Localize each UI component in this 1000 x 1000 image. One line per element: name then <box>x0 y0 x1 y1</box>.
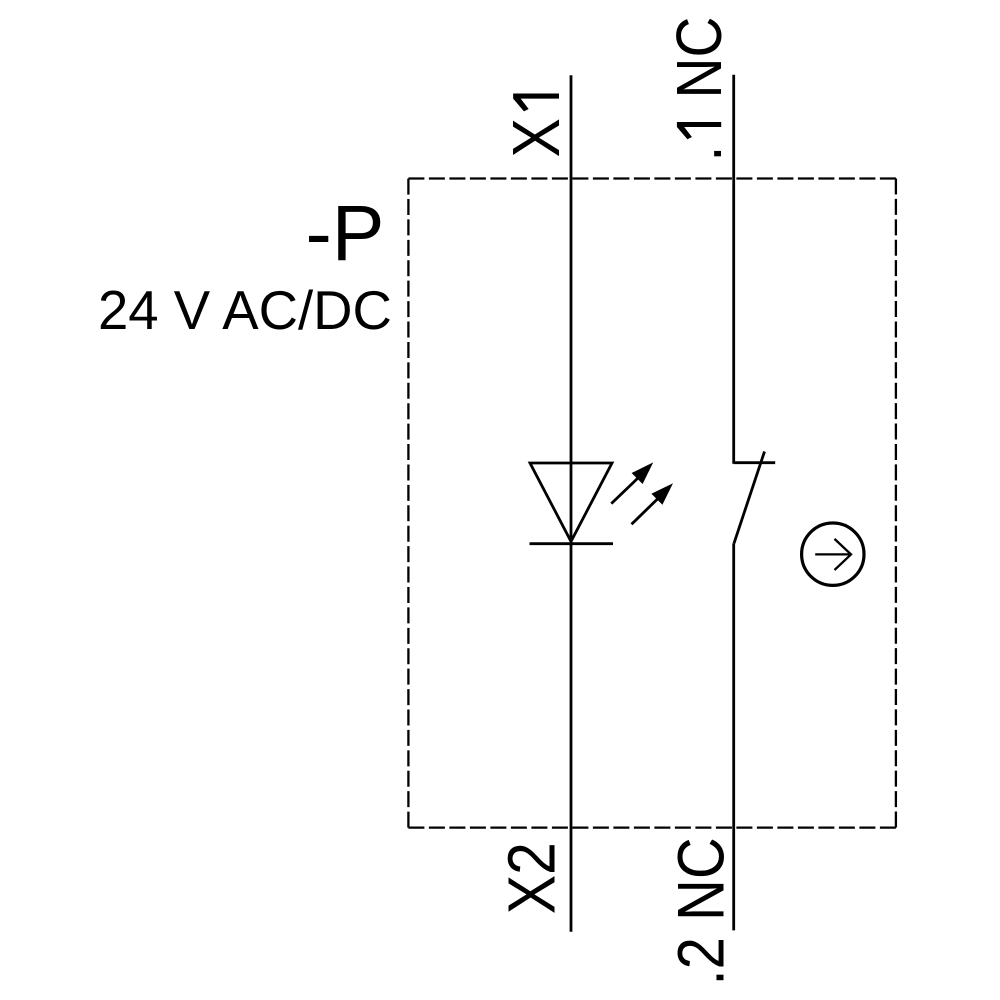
terminal label X2 <box>495 842 569 914</box>
svg-text:X: X <box>500 118 574 157</box>
svg-text:NC: NC <box>663 17 735 99</box>
actuator symbol: arrow shaft <box>815 553 849 555</box>
enclosure dashed border (device outline) <box>408 179 896 828</box>
svg-text:.2 NC: .2 NC <box>665 837 738 985</box>
LED D1: cathode bar <box>530 542 614 545</box>
terminal label .1 NC <box>663 17 735 162</box>
wire: NC contact branch, lower segment (.2) <box>732 543 735 930</box>
svg-text:.: . <box>663 146 735 162</box>
actuator symbol: arrow head <box>835 539 852 570</box>
NC contact movable blade <box>734 452 765 544</box>
terminal label X1 <box>500 93 574 157</box>
NC contact fixed terminal bar <box>734 461 776 464</box>
svg-text:-P: -P <box>306 188 385 277</box>
svg-text:24 V AC/DC: 24 V AC/DC <box>98 280 392 341</box>
wire: lamp branch vertical (X1 to X2) <box>570 75 573 932</box>
actuator symbol: circle <box>802 523 864 585</box>
terminal label .2 NC <box>665 837 738 985</box>
wire: NC contact branch, upper segment (.1) <box>732 75 735 464</box>
LED light-emission arrow 1 <box>611 462 653 503</box>
svg-text:X2: X2 <box>495 842 569 914</box>
LED light-emission arrow 2 <box>632 483 674 524</box>
LED D1: triangle <box>530 463 612 542</box>
